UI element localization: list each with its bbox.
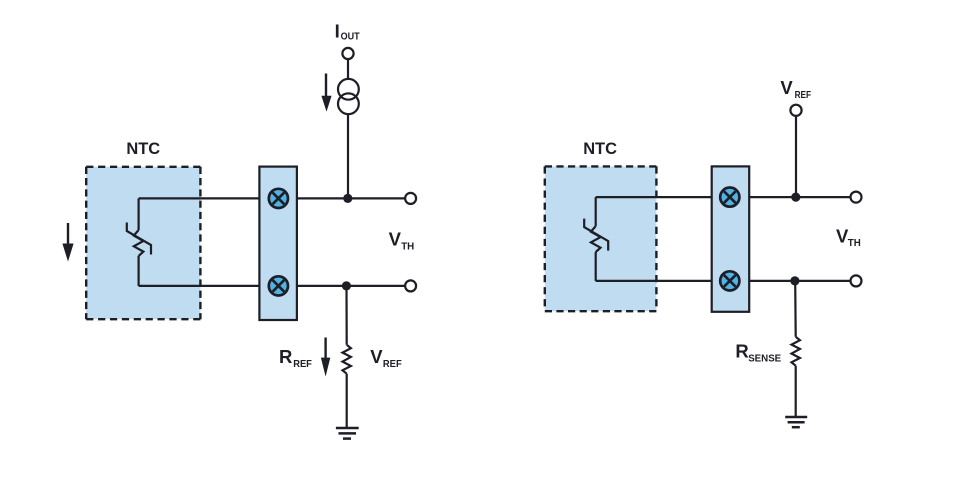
svg-text:REF: REF (795, 89, 812, 101)
svg-text:NTC: NTC (126, 140, 160, 158)
svg-text:TH: TH (401, 241, 414, 253)
svg-text:R: R (735, 341, 748, 362)
svg-text:NTC: NTC (583, 140, 617, 158)
svg-text:I: I (335, 20, 340, 41)
svg-text:TH: TH (848, 237, 861, 249)
svg-text:REF: REF (293, 358, 312, 370)
svg-text:V: V (780, 77, 793, 98)
svg-text:V: V (389, 229, 402, 250)
svg-text:V: V (370, 346, 383, 367)
svg-text:R: R (279, 346, 292, 367)
svg-text:SENSE: SENSE (748, 352, 781, 364)
svg-text:REF: REF (383, 358, 402, 370)
svg-text:OUT: OUT (341, 31, 360, 43)
